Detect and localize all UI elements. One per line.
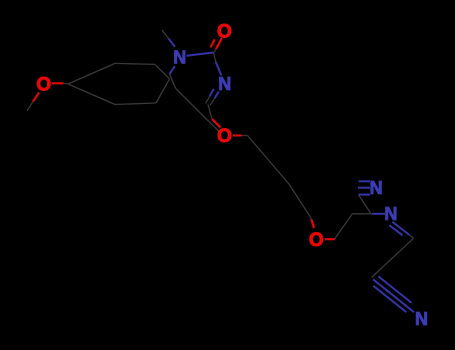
carbonyl C2=O double bond red line a bbox=[216, 38, 222, 49]
bond CH2b-O2 gray part bbox=[310, 217, 311, 220]
chain bond CH2-CH bbox=[248, 136, 290, 185]
svg-text:N: N bbox=[218, 74, 231, 94]
N3=C4 double bond gray tip b bbox=[206, 96, 210, 103]
N3=C4 double bond blue line b bbox=[210, 89, 214, 97]
carbonyl C2=O double bond red line b bbox=[211, 39, 215, 47]
svg-text:O: O bbox=[217, 22, 232, 43]
benzene ring edge BL-L bbox=[68, 84, 115, 105]
bond C4-O1 red half bbox=[212, 119, 221, 128]
bond O(methoxy)-CH3 red half bbox=[33, 92, 39, 101]
bond C5-C4a gray long bbox=[176, 88, 220, 132]
bond CH2b-O2 red part bbox=[311, 219, 314, 228]
benzene ring edge BR-BL bbox=[115, 103, 156, 105]
svg-text:O: O bbox=[217, 126, 232, 147]
benzene ring edge TL-TR bbox=[115, 63, 155, 64]
bond C3-Nring blue bbox=[372, 213, 385, 215]
svg-text:O: O bbox=[36, 75, 51, 96]
bond O(methoxy)-C1(benzene) gray half bbox=[64, 83, 70, 85]
N3=C4 double bond gray tip a bbox=[210, 99, 215, 106]
bond N1-C2 bbox=[187, 53, 214, 56]
bond C4-O1 gray half bbox=[208, 105, 212, 120]
bond O1-CH2 gray half bbox=[242, 135, 248, 137]
bond N1-C6 blue part bbox=[170, 66, 175, 74]
carbonyl C2=O gray tips bbox=[214, 49, 216, 53]
svg-text:N: N bbox=[370, 178, 383, 198]
nitrile2 triple bond lower line bbox=[373, 286, 406, 312]
nitrile2 triple bond upper line bbox=[378, 276, 411, 303]
svg-text:N: N bbox=[173, 47, 186, 67]
benzene ring edge L-TL bbox=[68, 63, 115, 84]
bond C2-N3 gray half bbox=[214, 53, 216, 63]
bond O(methoxy)-CH3 gray half bbox=[27, 102, 33, 111]
bond O1-CH2 red half bbox=[233, 134, 242, 136]
bond O2-C5' red half bbox=[325, 238, 335, 240]
bond C2-N3 blue half bbox=[216, 62, 222, 76]
bond N1-CH3 gray half bbox=[162, 30, 169, 39]
Nring=C2' double bond blue line a bbox=[392, 222, 409, 235]
Nring=C2' double bond gray tip a bbox=[410, 235, 414, 238]
svg-text:O: O bbox=[309, 230, 324, 251]
N3=C4 double bond blue line a bbox=[215, 92, 219, 99]
Nring=C2' double bond blue line b bbox=[389, 225, 402, 235]
svg-text:N: N bbox=[415, 309, 428, 329]
benzene ring edge TR-R bbox=[155, 64, 170, 79]
nitrile1 triple bond line top bbox=[359, 180, 371, 182]
bond N1-CH3 blue half bbox=[169, 39, 175, 47]
nitrile1 triple bond line mid bbox=[358, 187, 370, 189]
bond O2-C5' gray half bbox=[335, 214, 353, 239]
bond C2'-C3' gray bbox=[372, 238, 414, 277]
chain bond CH-CH2b bbox=[289, 184, 310, 217]
nitrile2 triple bond center line bbox=[373, 279, 414, 312]
bond C3-C(nitrile1) gray stub bbox=[359, 195, 371, 213]
benzene ring edge R-BR bbox=[156, 79, 170, 103]
svg-text:N: N bbox=[384, 204, 397, 224]
nitrile1 triple bond line bottom bbox=[359, 194, 371, 196]
bond C6-C5 gray bbox=[170, 74, 176, 88]
bond O(methoxy)-C1(benzene) red half bbox=[52, 82, 64, 84]
bond C5'-C3 gray bbox=[353, 213, 373, 215]
